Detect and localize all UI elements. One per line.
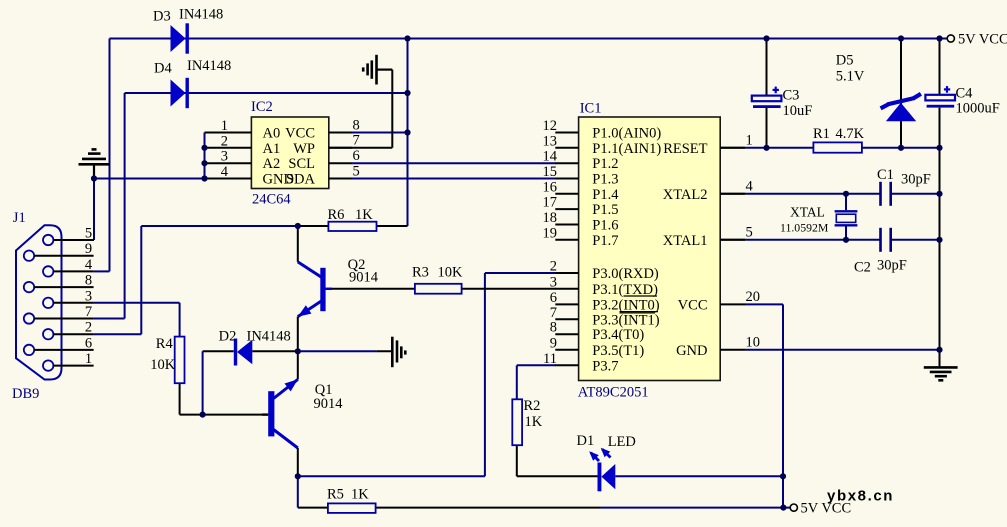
svg-text:8: 8 xyxy=(85,273,92,289)
svg-text:D5: D5 xyxy=(836,53,854,69)
svg-text:9: 9 xyxy=(550,335,557,351)
svg-text:R6: R6 xyxy=(328,207,345,223)
svg-text:13: 13 xyxy=(543,133,558,149)
svg-text:16: 16 xyxy=(543,179,558,195)
svg-text:RESET: RESET xyxy=(663,141,707,157)
svg-text:VCC: VCC xyxy=(285,126,315,142)
svg-text:LED: LED xyxy=(608,434,636,450)
svg-text:P3.0(RXD): P3.0(RXD) xyxy=(592,266,659,282)
svg-text:2: 2 xyxy=(85,320,92,336)
svg-text:2: 2 xyxy=(221,133,228,149)
svg-text:4: 4 xyxy=(221,164,229,180)
svg-text:10K: 10K xyxy=(150,357,176,373)
svg-text:ybx8.cn: ybx8.cn xyxy=(827,488,894,505)
svg-text:P1.2: P1.2 xyxy=(592,156,618,172)
svg-text:6: 6 xyxy=(353,148,360,164)
svg-text:7: 7 xyxy=(85,304,92,320)
svg-text:D1: D1 xyxy=(577,433,595,449)
svg-text:DB9: DB9 xyxy=(12,386,39,402)
svg-text:D2: D2 xyxy=(219,329,237,345)
svg-text:1: 1 xyxy=(85,351,92,367)
svg-text:9: 9 xyxy=(85,241,92,257)
svg-text:P1.0(AIN0): P1.0(AIN0) xyxy=(592,126,661,142)
svg-text:C3: C3 xyxy=(783,88,800,104)
svg-text:SCL: SCL xyxy=(288,156,315,172)
svg-text:3: 3 xyxy=(221,149,228,165)
svg-text:C1: C1 xyxy=(877,167,894,183)
svg-text:R1: R1 xyxy=(813,126,830,142)
svg-text:5: 5 xyxy=(353,163,360,179)
svg-text:10K: 10K xyxy=(438,265,464,281)
svg-text:A2: A2 xyxy=(263,156,281,172)
svg-text:SDA: SDA xyxy=(286,172,316,188)
svg-text:20: 20 xyxy=(746,289,761,305)
svg-text:P1.7: P1.7 xyxy=(592,233,618,249)
svg-text:3: 3 xyxy=(85,288,92,304)
svg-text:12: 12 xyxy=(543,118,558,134)
svg-text:5: 5 xyxy=(746,225,753,241)
svg-text:6: 6 xyxy=(550,290,557,306)
svg-text:7: 7 xyxy=(550,305,557,321)
svg-text:30pF: 30pF xyxy=(901,172,931,188)
svg-text:IN4148: IN4148 xyxy=(179,7,223,23)
svg-text:1000uF: 1000uF xyxy=(956,101,1000,117)
svg-text:XTAL: XTAL xyxy=(790,205,825,220)
svg-text:24C64: 24C64 xyxy=(252,192,291,208)
svg-text:8: 8 xyxy=(353,117,360,133)
svg-text:IC2: IC2 xyxy=(251,99,273,115)
svg-text:30pF: 30pF xyxy=(877,258,907,274)
svg-text:10: 10 xyxy=(746,335,761,351)
svg-text:5.1V: 5.1V xyxy=(836,69,865,85)
svg-text:XTAL1: XTAL1 xyxy=(663,233,708,249)
svg-text:IN4148: IN4148 xyxy=(247,329,291,345)
svg-text:1K: 1K xyxy=(355,207,373,223)
svg-text:11.0592M: 11.0592M xyxy=(780,221,829,235)
svg-text:5: 5 xyxy=(85,226,92,242)
svg-text:J1: J1 xyxy=(13,210,26,226)
svg-text:P1.3: P1.3 xyxy=(592,172,618,188)
svg-text:4: 4 xyxy=(85,257,93,273)
svg-text:C4: C4 xyxy=(956,86,974,102)
svg-text:P3.4(T0): P3.4(T0) xyxy=(592,327,644,343)
svg-text:4.7K: 4.7K xyxy=(836,126,865,142)
svg-text:1K: 1K xyxy=(351,487,369,503)
svg-text:7: 7 xyxy=(353,133,360,149)
svg-text:XTAL2: XTAL2 xyxy=(663,187,708,203)
svg-text:5V VCC: 5V VCC xyxy=(958,32,1007,48)
svg-text:19: 19 xyxy=(543,225,558,241)
svg-text:P1.6: P1.6 xyxy=(592,218,618,234)
svg-text:IN4148: IN4148 xyxy=(187,58,231,74)
svg-text:15: 15 xyxy=(543,164,558,180)
svg-text:R5: R5 xyxy=(327,487,344,503)
svg-text:R3: R3 xyxy=(412,265,429,281)
svg-text:8: 8 xyxy=(550,320,557,336)
svg-text:P3.7: P3.7 xyxy=(592,358,618,374)
svg-text:6: 6 xyxy=(85,335,92,351)
svg-text:A1: A1 xyxy=(263,141,281,157)
svg-text:R4: R4 xyxy=(156,336,174,352)
svg-text:AT89C2051: AT89C2051 xyxy=(578,385,649,401)
svg-text:P3.5(T1): P3.5(T1) xyxy=(592,343,644,359)
svg-text:9014: 9014 xyxy=(314,396,344,412)
svg-text:17: 17 xyxy=(543,195,558,211)
svg-text:C2: C2 xyxy=(854,260,871,276)
svg-text:10uF: 10uF xyxy=(783,103,813,119)
svg-text:GND: GND xyxy=(676,343,707,359)
svg-text:P3.3(INT1): P3.3(INT1) xyxy=(592,312,659,328)
svg-text:P1.4: P1.4 xyxy=(592,187,619,203)
svg-text:11: 11 xyxy=(543,351,557,367)
svg-text:3: 3 xyxy=(550,274,557,290)
svg-text:A0: A0 xyxy=(263,126,281,142)
svg-text:R2: R2 xyxy=(524,398,541,414)
svg-text:D4: D4 xyxy=(154,61,172,77)
svg-text:1: 1 xyxy=(746,133,753,149)
svg-text:IC1: IC1 xyxy=(580,101,602,117)
svg-text:4: 4 xyxy=(746,179,754,195)
svg-text:WP: WP xyxy=(293,141,315,157)
svg-text:1K: 1K xyxy=(525,414,543,430)
svg-text:9014: 9014 xyxy=(349,270,379,286)
svg-text:1: 1 xyxy=(221,118,228,134)
svg-text:14: 14 xyxy=(543,149,558,165)
svg-text:P1.1(AIN1): P1.1(AIN1) xyxy=(592,141,661,157)
svg-text:18: 18 xyxy=(543,210,558,226)
svg-text:P1.5: P1.5 xyxy=(592,202,618,218)
svg-text:D3: D3 xyxy=(153,9,171,25)
svg-text:2: 2 xyxy=(550,259,557,275)
svg-text:VCC: VCC xyxy=(678,297,708,313)
